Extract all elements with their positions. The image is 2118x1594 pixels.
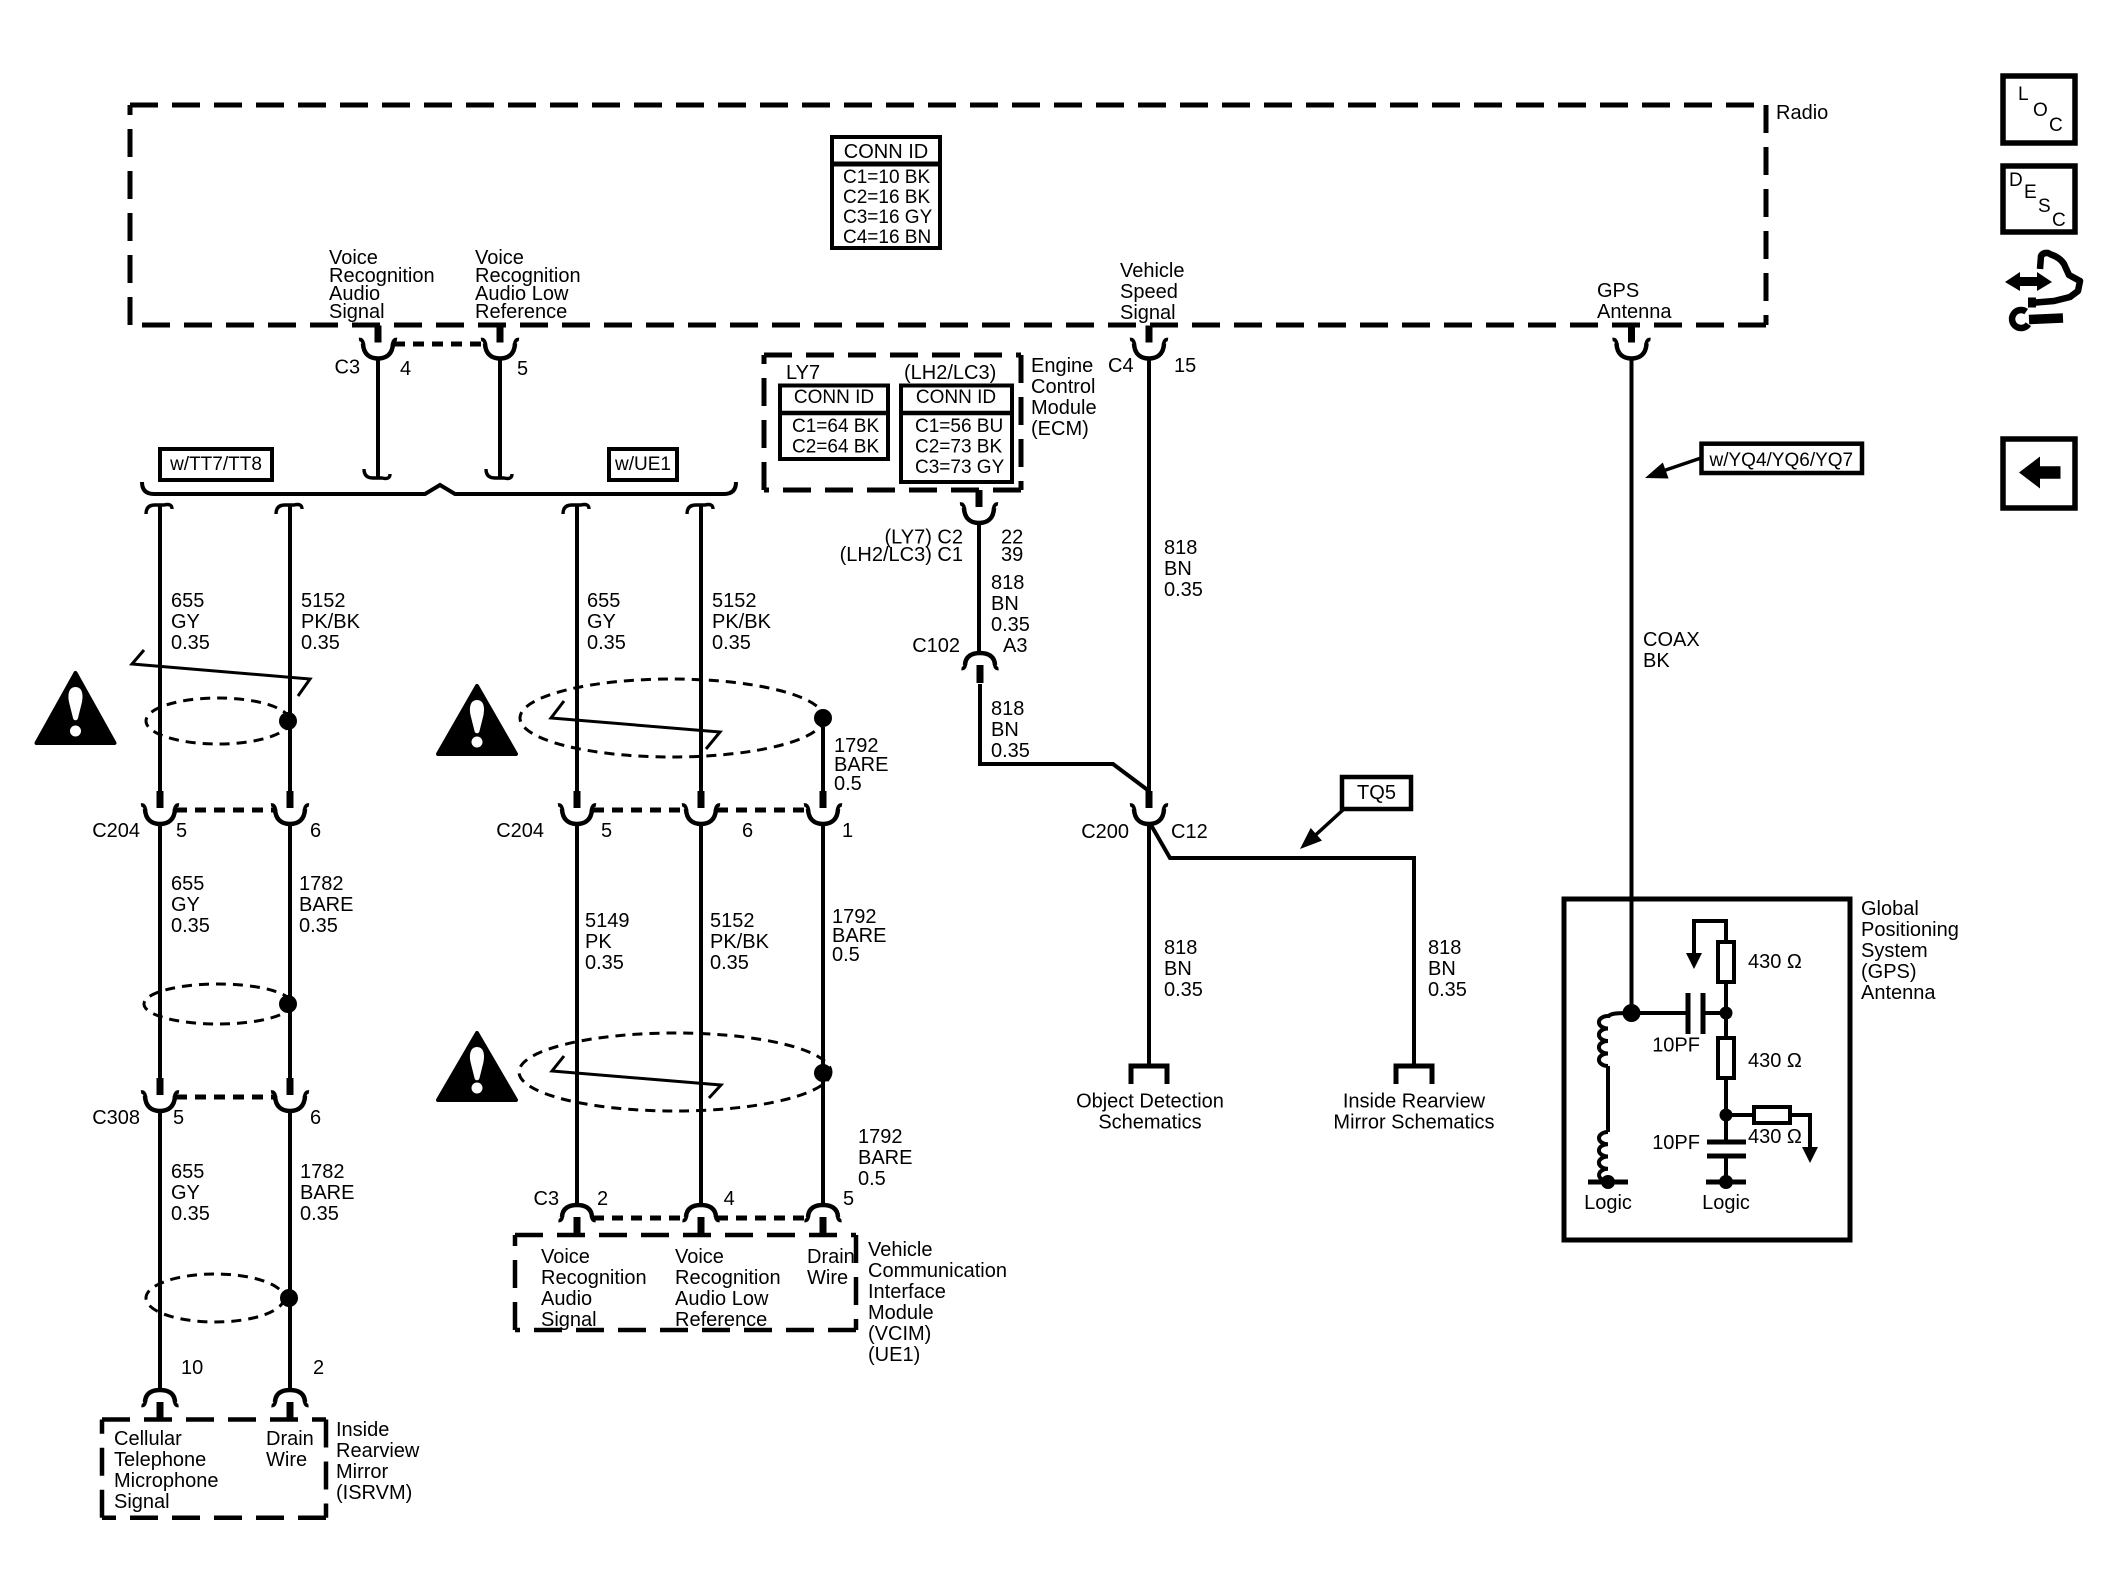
svg-text:Communication: Communication [868,1260,1007,1282]
svg-text:PK/BK: PK/BK [710,931,770,953]
svg-text:TQ5: TQ5 [1357,782,1396,804]
svg-text:C308: C308 [92,1107,140,1129]
svg-text:Mirror Schematics: Mirror Schematics [1333,1112,1494,1134]
svg-text:0.35: 0.35 [171,632,210,654]
svg-text:0.35: 0.35 [299,915,338,937]
svg-text:818: 818 [1164,537,1197,559]
svg-text:Mirror: Mirror [336,1461,389,1483]
svg-text:Interface: Interface [868,1281,946,1303]
svg-text:2: 2 [597,1188,608,1210]
svg-text:BN: BN [1428,958,1456,980]
svg-text:BARE: BARE [300,1182,354,1204]
svg-text:Signal: Signal [541,1309,597,1331]
svg-text:Wire: Wire [807,1267,848,1289]
svg-text:5152: 5152 [301,590,346,612]
svg-text:BN: BN [991,719,1019,741]
svg-text:Cellular: Cellular [114,1428,182,1450]
svg-text:Radio: Radio [1776,102,1828,124]
svg-text:0.35: 0.35 [1164,579,1203,601]
svg-text:6: 6 [310,1107,321,1129]
svg-text:655: 655 [587,590,620,612]
svg-text:Inside Rearview: Inside Rearview [1343,1091,1486,1113]
svg-text:C3: C3 [335,357,361,379]
svg-text:C3=16 GY: C3=16 GY [843,207,933,228]
svg-text:BK: BK [1643,650,1670,672]
svg-text:0.35: 0.35 [585,952,624,974]
svg-text:COAX: COAX [1643,629,1700,651]
svg-text:Voice: Voice [675,1246,724,1268]
svg-text:Schematics: Schematics [1098,1112,1201,1134]
svg-text:Audio Low: Audio Low [675,1288,769,1310]
svg-text:(GPS): (GPS) [1861,961,1917,983]
svg-text:w/TT7/TT8: w/TT7/TT8 [169,454,262,475]
svg-text:C1=56 BU: C1=56 BU [915,416,1003,437]
svg-text:2: 2 [313,1357,324,1379]
svg-text:5152: 5152 [712,590,757,612]
svg-text:0.35: 0.35 [991,614,1030,636]
svg-text:Signal: Signal [1120,302,1176,324]
svg-text:Vehicle: Vehicle [868,1239,933,1261]
svg-text:C204: C204 [92,820,140,842]
svg-text:C204: C204 [496,820,544,842]
svg-text:GY: GY [171,894,200,916]
svg-text:5: 5 [176,820,187,842]
svg-text:Signal: Signal [114,1491,170,1513]
svg-text:Antenna: Antenna [1597,301,1672,323]
svg-text:6: 6 [310,820,321,842]
svg-text:E: E [2024,182,2037,203]
svg-text:C3: C3 [534,1188,560,1210]
svg-text:4: 4 [400,358,411,380]
svg-text:818: 818 [1164,937,1197,959]
svg-text:Microphone: Microphone [114,1470,219,1492]
svg-text:0.35: 0.35 [171,915,210,937]
svg-text:Logic: Logic [1702,1192,1750,1214]
svg-text:GY: GY [171,1182,200,1204]
svg-text:(ISRVM): (ISRVM) [336,1482,412,1504]
svg-text:C4=16 BN: C4=16 BN [843,227,931,248]
svg-text:S: S [2038,196,2051,217]
svg-text:GY: GY [587,611,616,633]
svg-text:0.35: 0.35 [1164,979,1203,1001]
svg-text:5: 5 [517,358,528,380]
svg-text:BN: BN [1164,958,1192,980]
svg-text:PK/BK: PK/BK [301,611,361,633]
svg-text:A3: A3 [1003,635,1027,657]
svg-text:15: 15 [1174,355,1196,377]
svg-text:(UE1): (UE1) [868,1344,920,1366]
svg-text:Positioning: Positioning [1861,919,1959,941]
svg-text:1792: 1792 [858,1126,903,1148]
svg-text:5: 5 [843,1188,854,1210]
svg-text:0.35: 0.35 [991,740,1030,762]
svg-text:5: 5 [601,820,612,842]
svg-text:0.35: 0.35 [712,632,751,654]
svg-text:Signal: Signal [329,301,385,323]
svg-text:CONN ID: CONN ID [844,141,928,163]
svg-text:10PF: 10PF [1652,1132,1700,1154]
svg-text:4: 4 [724,1188,735,1210]
svg-text:PK/BK: PK/BK [712,611,772,633]
svg-text:PK: PK [585,931,612,953]
svg-text:655: 655 [171,873,204,895]
svg-text:Object Detection: Object Detection [1076,1091,1224,1113]
svg-text:C2=64 BK: C2=64 BK [792,437,879,458]
svg-text:Audio: Audio [541,1288,592,1310]
svg-text:0.35: 0.35 [301,632,340,654]
svg-text:BN: BN [1164,558,1192,580]
svg-text:10PF: 10PF [1652,1035,1700,1057]
svg-text:C1=64 BK: C1=64 BK [792,416,879,437]
svg-text:(ECM): (ECM) [1031,418,1089,440]
svg-text:C102: C102 [912,635,960,657]
svg-text:Wire: Wire [266,1449,307,1471]
svg-text:D: D [2009,170,2023,191]
svg-text:C2=73 BK: C2=73 BK [915,437,1002,458]
svg-text:818: 818 [991,572,1024,594]
svg-text:Reference: Reference [675,1309,767,1331]
svg-text:CONN ID: CONN ID [794,387,874,408]
svg-text:Voice: Voice [541,1246,590,1268]
svg-text:1782: 1782 [300,1161,345,1183]
svg-text:CONN ID: CONN ID [916,387,996,408]
svg-text:5: 5 [173,1107,184,1129]
svg-text:w/UE1: w/UE1 [614,454,671,475]
svg-text:655: 655 [171,590,204,612]
svg-text:0.35: 0.35 [300,1203,339,1225]
svg-text:Control: Control [1031,376,1095,398]
svg-text:Drain: Drain [807,1246,855,1268]
svg-text:Antenna: Antenna [1861,982,1936,1004]
svg-text:0.35: 0.35 [171,1203,210,1225]
svg-text:LY7: LY7 [786,362,820,384]
svg-text:(VCIM): (VCIM) [868,1323,931,1345]
svg-text:655: 655 [171,1161,204,1183]
svg-text:(LH2/LC3): (LH2/LC3) [904,362,996,384]
svg-text:39: 39 [1001,544,1023,566]
svg-text:0.5: 0.5 [832,944,860,966]
svg-text:Engine: Engine [1031,355,1093,377]
svg-text:System: System [1861,940,1928,962]
svg-text:Recognition: Recognition [541,1267,647,1289]
svg-text:430 Ω: 430 Ω [1748,1050,1802,1072]
svg-text:6: 6 [742,820,753,842]
svg-text:Inside: Inside [336,1419,389,1441]
svg-text:C: C [2052,210,2066,231]
svg-text:O: O [2033,100,2048,121]
svg-text:Drain: Drain [266,1428,314,1450]
svg-text:C200: C200 [1081,821,1129,843]
svg-text:Speed: Speed [1120,281,1178,303]
svg-text:Module: Module [868,1302,934,1324]
svg-text:C12: C12 [1171,821,1208,843]
svg-text:818: 818 [991,698,1024,720]
svg-text:10: 10 [181,1357,203,1379]
svg-text:5149: 5149 [585,910,630,932]
svg-text:L: L [2018,84,2029,105]
svg-text:Rearview: Rearview [336,1440,420,1462]
svg-text:1: 1 [842,820,853,842]
svg-text:C2=16 BK: C2=16 BK [843,187,930,208]
svg-text:0.35: 0.35 [587,632,626,654]
svg-text:818: 818 [1428,937,1461,959]
svg-text:5152: 5152 [710,910,755,932]
svg-text:Vehicle: Vehicle [1120,260,1185,282]
svg-text:Module: Module [1031,397,1097,419]
svg-text:0.35: 0.35 [1428,979,1467,1001]
svg-text:C: C [2049,115,2063,136]
svg-text:Recognition: Recognition [675,1267,781,1289]
svg-text:1782: 1782 [299,873,344,895]
svg-text:Logic: Logic [1584,1192,1632,1214]
svg-text:Global: Global [1861,898,1919,920]
svg-text:0.5: 0.5 [834,773,862,795]
svg-text:GPS: GPS [1597,280,1639,302]
svg-text:0.35: 0.35 [710,952,749,974]
svg-text:(LH2/LC3) C1: (LH2/LC3) C1 [840,544,963,566]
svg-text:BARE: BARE [858,1147,912,1169]
svg-text:GY: GY [171,611,200,633]
svg-text:w/YQ4/YQ6/YQ7: w/YQ4/YQ6/YQ7 [1709,450,1854,471]
svg-text:C4: C4 [1108,355,1134,377]
svg-text:430 Ω: 430 Ω [1748,951,1802,973]
svg-text:Reference: Reference [475,301,567,323]
svg-text:C3=73 GY: C3=73 GY [915,457,1005,478]
svg-text:430 Ω: 430 Ω [1748,1126,1802,1148]
svg-text:0.5: 0.5 [858,1168,886,1190]
svg-text:BARE: BARE [299,894,353,916]
svg-text:BN: BN [991,593,1019,615]
svg-text:Telephone: Telephone [114,1449,206,1471]
svg-text:C1=10 BK: C1=10 BK [843,167,930,188]
